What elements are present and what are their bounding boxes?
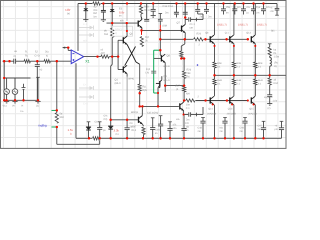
capacitor C5 leg [151,4,156,18]
label ReU2 [258,62,263,68]
resistor ReL2 [254,75,257,96]
svg-text:p4r: p4r [275,128,279,131]
label R12 [145,36,150,43]
svg-text:(2): (2) [36,105,39,108]
capacitor bus CM2 [150,118,155,139]
label R8 [144,6,152,12]
svg-text:20A(4)D: 20A(4)D [248,112,257,115]
label QL0 [208,108,213,111]
wire Q16 collector [141,106,143,115]
capacitor bus C23 [167,122,172,139]
wire green vertical [153,50,155,93]
wire QLL collector [183,101,185,103]
wire rail y100 [183,100,248,102]
label R26 [175,69,192,92]
svg-text:C(4: C(4 [146,68,151,71]
svg-text:Q1b: Q1b [228,108,233,111]
svg-text:Q: Q [115,32,117,35]
resistor ReU0 [213,62,216,75]
svg-text:R20: R20 [197,33,202,36]
svg-text:C+4: C+4 [83,102,88,105]
label Cg2 [130,122,134,129]
svg-text:C12 C14: C12 C14 [163,5,174,8]
capacitor C50 leg [195,4,203,20]
labels sources [3,105,40,114]
transistor QU0 upper [210,4,214,63]
label QL1 [228,108,233,111]
label L1 [274,49,280,69]
capacitor C4 leg [144,4,149,22]
wire base tie vertical [117,40,119,69]
wire output rail [215,74,286,76]
ghost diode 4 [79,95,94,105]
resistor R3 on rail [92,1,100,5]
wire C3 to bus [36,67,38,101]
label QU2 [246,32,251,35]
svg-text:+O: +O [39,69,42,72]
transistor QL1 lower [230,96,234,138]
capacitor bus CV1 [200,118,205,139]
capacitor C7 leg [232,4,237,15]
wire red segment A [141,30,143,35]
node C13 dot [183,114,185,116]
label Q5 Q4 [115,33,133,86]
label QU0 [205,32,209,35]
dots y30 [140,29,161,31]
svg-text:20A(40B: 20A(40B [227,112,237,115]
svg-text:1m: 1m [130,126,133,129]
capacitor Cg1 [97,122,102,139]
svg-text:(8&.0: (8&.0 [115,82,122,85]
transistor QL0 lower [210,96,214,138]
svg-text:50d: 50d [60,116,65,119]
label QL1 part [227,112,237,115]
wire V1 stub [6,78,8,89]
wire QLL emitter [183,111,185,115]
svg-text:19(31.7): 19(31.7) [217,23,227,26]
label R30 [186,93,200,99]
wire L1 down [269,66,271,75]
svg-text:1.0e: 1.0e [273,100,278,103]
label Q8 [164,55,171,69]
wire Q9 below [157,93,159,106]
grid background [1,1,287,149]
label net mqfbg [38,123,47,127]
resistor R6 [101,55,109,58]
label C11 [190,23,196,29]
wire X emitter diag A [127,45,140,65]
wire input feed down [3,61,5,100]
ground flag V2 [12,101,17,103]
label R10 [143,86,148,93]
wire Q4 base stub [118,69,123,71]
labels bus caps right [198,125,279,134]
capacitor Cg2 [125,120,130,139]
inductor L1 [270,56,272,66]
ground flag V1 [4,101,9,103]
svg-text:Fya: Fya [256,6,261,9]
red labels 19_31 [217,23,275,32]
node R7 bottom dot [111,55,113,57]
wire V+ top rail [78,3,277,5]
wire X diag B [125,47,136,66]
wire y106 link [140,105,179,107]
svg-text:V1a: V1a [3,105,8,108]
transistor Q9 driver [156,76,162,88]
label t0h [120,19,124,22]
svg-text:im: im [119,15,122,18]
capacitor C1 input [14,59,16,64]
ghost box BPK3 [112,26,132,36]
label R20 [197,33,202,47]
resistor Rbus [92,136,100,140]
svg-text:80t.4t: 80t.4t [164,79,170,82]
wire R2 to opamp [50,60,71,62]
svg-text:4m: 4m [237,6,240,9]
svg-text:2k): 2k) [45,51,49,54]
svg-text:BPK(: BPK( [129,78,135,81]
label QLL [186,103,191,110]
label Cg1 [95,121,106,133]
svg-text:t.Rr: t.Rr [66,8,71,12]
svg-text:um: um [190,27,193,30]
svg-text:i.m: i.m [256,12,259,15]
resistor R10 leg [138,64,141,106]
wire drv emit link [165,86,184,92]
label red topleft [66,8,71,15]
svg-text:80t.3t: 80t.3t [164,65,170,68]
node drv rail dot [159,38,161,40]
resistor ReL1 [232,75,235,96]
svg-text:(0M: (0M [163,24,167,27]
resistor R20 rail [193,37,203,41]
labels bus caps left [147,112,180,135]
resistor ReU1 [232,62,235,75]
resistor R30 rail [185,98,195,102]
capacitor C9 leg [251,4,256,15]
capacitor C10 leg [261,4,266,15]
wire bias top [184,4,186,16]
dots y119 [110,119,129,121]
capacitor C51 leg [204,4,209,15]
op-amp U1 X1 [71,50,84,64]
diode D2 leg [110,4,115,24]
label QL2 part [248,112,257,115]
label C13 [185,119,189,133]
svg-text:2m: 2m [208,16,211,19]
wire node A down [36,61,38,64]
label R7 [104,30,109,37]
wire drv collector up [159,30,161,55]
resistor R5 feedback [55,113,58,124]
label R5 [60,113,65,120]
node drvemit dot [164,84,166,86]
wire source top link [4,77,30,79]
label Q9 [164,75,170,82]
svg-text:2m: 2m [165,12,168,15]
svg-text:H: H [22,105,24,108]
label Cdom [146,68,151,75]
capacitor bus C13v [181,115,186,139]
svg-text:BPK)3: BPK)3 [131,111,139,114]
svg-text:(m: (m [103,129,106,132]
dot QU2 emitter [254,45,256,47]
node fb1 dot [56,109,58,111]
capacitor bus CV3 [242,118,247,139]
wire feedback down [56,61,58,112]
dots ground bus [88,137,265,139]
blue marker [197,64,199,66]
capacitor C11 horiz [185,17,203,21]
svg-text:1.5m: 1.5m [274,56,280,59]
svg-text:Q13: Q13 [246,32,251,35]
dots y106 [139,105,160,107]
svg-text:im: im [155,132,158,135]
wire Q7 collector [184,16,186,25]
dots mid y23 [111,22,128,24]
label X1 [85,59,89,63]
svg-text:(2): (2) [268,107,271,110]
label 3.3k red [104,115,120,136]
wire rail y39 [160,38,248,40]
svg-text:R.: R. [25,51,28,54]
ghost diode 1 [79,23,94,30]
wire ground bus [76,137,282,139]
flag cap leg x160 [158,14,163,26]
node B dot [56,60,58,62]
svg-text:U): U) [274,65,277,68]
svg-text:19(31.7): 19(31.7) [257,23,267,26]
resistor R7 vas [111,23,114,57]
net tick fb1 [52,109,57,111]
capacitor bus CV5 end [279,121,284,138]
resistor R1 [24,60,30,63]
transistor Q4 [123,65,127,73]
node green dot [159,49,161,51]
svg-text:2m: 2m [198,130,201,133]
svg-text:3.3k: 3.3k [114,128,120,132]
dots bias mid [180,57,185,59]
svg-text:2m: 2m [220,130,223,133]
wire y119 link [111,119,139,121]
label R6 [101,49,106,56]
wire Q5 collector leg [126,23,128,36]
capacitor C8 leg [241,4,246,15]
label QL0 part [207,112,217,115]
transistor Q7 bias [182,24,186,32]
wire Q16 emitter [142,124,145,138]
junction dots top layer [3,2,271,139]
svg-text:mqfbg: mqfbg [38,123,47,127]
wire bottom run [57,143,100,145]
svg-text:Q.1: Q.1 [225,32,230,35]
svg-text:20A(408: 20A(408 [207,112,217,115]
svg-text:BPK3: BPK3 [115,29,122,32]
resistor R26b [183,71,186,86]
wire opamp vminus down [75,63,77,138]
svg-text:t0h: t0h [120,19,124,22]
label c50 group [200,16,212,19]
wire green bottom [154,92,159,94]
label Q7 [177,22,181,25]
node A dot [36,60,38,62]
svg-text:9)1: 9)1 [271,30,275,33]
dots ground bus left [3,99,39,101]
wire R1 out [30,60,44,62]
label E3 8.8v [119,7,125,17]
label 1.5v red [68,128,74,136]
capacitor bus CM3 [158,116,163,139]
capacitor bus CV2 [222,118,227,139]
svg-text:C.1: C.1 [186,107,191,110]
labels input chain [14,50,49,58]
label QL2 [249,108,254,111]
dot QU1 emitter [233,45,235,47]
svg-text:im: im [226,12,229,15]
svg-text:1.5v: 1.5v [68,128,74,132]
label ReU1 [237,62,242,68]
dot QU0 emitter [214,45,216,47]
wire green top [154,49,161,51]
svg-text:Q14: Q14 [208,108,213,111]
resistor ReU2 [254,62,257,75]
wire input left [3,60,14,62]
node feed dot [3,77,5,79]
wire feedback bottom [56,127,58,144]
net tick fb2 [52,126,57,128]
wire V2 stub [14,78,16,89]
svg-text:X1: X1 [85,59,89,63]
node input dot [3,60,11,62]
svg-text:2m: 2m [258,128,261,131]
wire after C1 [16,60,24,62]
wire R6 right [109,56,118,58]
svg-text:K04: K04 [274,82,279,85]
label ReU0 [217,62,222,68]
label 0M [163,24,167,27]
dot QL1 [231,103,233,105]
ground flag zobel [267,104,272,110]
svg-text:C+: C+ [83,83,87,86]
flag opamp plus [62,46,71,50]
svg-text:c+1: c+1 [83,23,88,26]
dots rail y39 [184,38,249,40]
node fb2 dot [56,126,58,128]
border frame [1,1,287,149]
transistor QU1 upper [230,4,234,63]
resistor R8 leg [139,4,142,17]
svg-text:1m: 1m [93,15,96,18]
capacitor C2 leg [101,4,106,22]
wire red segment B [159,25,161,29]
label Q16 [131,111,139,132]
svg-text:Q15: Q15 [249,108,254,111]
wire Q5 base stub [118,39,123,41]
svg-text:C+O: C+O [35,55,40,58]
resistor R12 [140,37,143,47]
resistor R26c [183,86,186,100]
svg-text:2m: 2m [240,130,243,133]
svg-text:+0n: +0n [270,10,275,13]
resistor R26a [180,51,183,59]
transistor Q8 driver [154,54,165,62]
wire V+ feed to op-amp [77,4,79,52]
source V2 [12,89,18,95]
dots output rail [213,74,271,76]
wire cap bus up [36,77,40,100]
wire seg to dot [159,29,161,31]
label QU1 [225,32,230,35]
svg-text:C35 4O%): C35 4O%) [147,112,158,115]
ground flag right [35,101,40,103]
label C3 plus [39,69,42,72]
wire Q4 emitter tail [127,74,134,120]
label Rzobel [274,79,279,86]
flag L1 top [268,44,272,47]
node bias emit dot [183,84,185,86]
label ReL1 [237,79,242,85]
capacitor C14 leg [183,4,188,15]
labels top right caps [226,6,269,15]
wire vas bias drop [111,57,113,120]
resistor R2 [44,60,50,63]
svg-text:78.1 k: 78.1 k [144,9,152,12]
transistor Q16 [139,116,143,124]
svg-text:NH: NH [186,93,190,96]
wire Q6 emitter path [141,28,144,31]
svg-text:2m: 2m [200,16,203,19]
node green base dot [157,88,159,94]
diode D4 [108,120,113,139]
label ReL0 [217,79,222,85]
svg-text:C#): C#) [104,118,108,121]
wire Q8 emitter down [164,63,166,86]
capacitor C13 horiz [184,107,203,117]
capacitor bus CV4 [261,121,266,138]
capacitor C16 rail end [275,4,280,16]
capacitor C3 shunt [35,65,40,67]
node bias top dot [184,16,186,18]
transistor QLL left [178,102,183,110]
wire ground bus left [4,99,38,101]
wire V1 bottom [6,94,8,100]
resistor ReL0 [213,75,216,96]
diode D1 leg [83,4,88,22]
svg-text:10n: 10n [173,127,178,130]
wire mid y23 [107,22,139,24]
wire drv col jog [160,54,161,56]
wire bias mid leg [181,39,185,51]
battery V3 [22,84,26,101]
capacitor Czobel [267,95,272,104]
capacitor C6 leg [221,4,226,15]
svg-text:C): C) [14,55,17,58]
label ReL2 [258,79,263,85]
transistor Q6 vas [138,17,142,28]
wire Q7 emitter [184,33,186,40]
node base tie dot [117,55,119,57]
diode D3 [86,122,91,139]
wire y30 link [142,29,182,31]
transistor Q5 [123,36,127,44]
wire opamp out [84,56,101,58]
node out dot [96,55,98,57]
wire bottom jog up [99,138,101,144]
junction dots top rail [85,2,265,4]
capacitor Cdom [151,71,156,73]
transistor QL2 lower [251,96,255,138]
label C16 [270,7,275,13]
